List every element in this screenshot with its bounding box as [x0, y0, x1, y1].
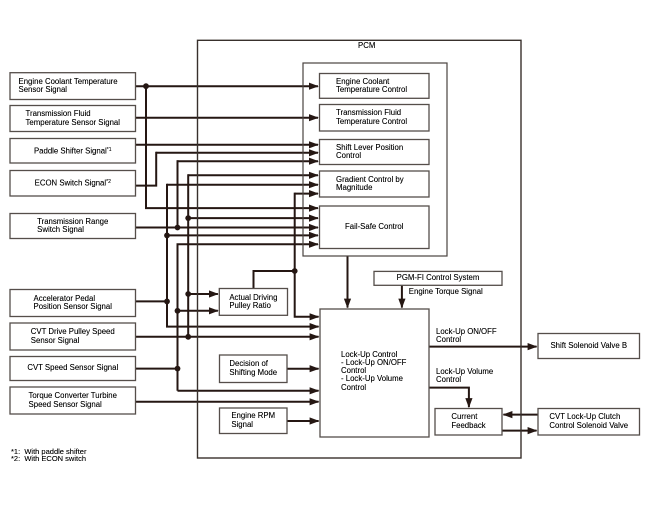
wire: cvt speed sensor output	[136, 368, 178, 370]
wire: cvt drive trunk to pulley ratio box	[188, 293, 218, 295]
node: cvt drive/pulley ratio junction	[185, 291, 191, 297]
box: trans fluid temp sensor signal	[10, 106, 136, 132]
wire: current feedback to cvt solenoid	[502, 430, 537, 432]
box: torque converter turbine speed sensor signal	[10, 387, 136, 414]
node: cvt drive/fail-safe junction	[185, 215, 191, 221]
box: accelerator pedal position sensor signal	[10, 290, 136, 317]
wire: lock-up volume to current feedback	[429, 388, 469, 408]
label: transmission fluid temperature control	[320, 105, 430, 132]
box: engine coolant temp sensor signal	[10, 73, 136, 100]
node: range junction	[175, 225, 181, 231]
box: shift lever position control	[320, 140, 430, 165]
label: lock-up on/off control	[436, 328, 497, 345]
inner control container box	[303, 63, 447, 256]
box: current feedback	[435, 409, 502, 436]
box: engine coolant temperature control	[320, 74, 430, 99]
label: cvt drive pulley speed sensor signal	[10, 323, 136, 350]
label: transmission range switch signal	[10, 214, 136, 239]
box: actual driving pulley ratio	[219, 289, 287, 316]
box: cvt drive pulley speed sensor signal	[10, 323, 136, 350]
label: engine coolant temp sensor signal	[10, 73, 136, 100]
wire: pulley ratio box top link	[254, 271, 295, 289]
wire: lock-up on/off to shift solenoid	[429, 346, 537, 348]
label: footnotes	[11, 448, 86, 463]
label: lock-up control block text	[341, 351, 406, 392]
wire: range switch to fail-safe	[136, 227, 319, 229]
wire: engine coolant temp sensor to control	[136, 85, 319, 87]
label: current feedback	[435, 409, 502, 436]
node: cvt drive output junction	[185, 334, 191, 340]
wire: cvt speed trunk to pulley ratio box	[178, 310, 218, 312]
label: fail-safe control	[320, 206, 430, 249]
label: shift lever position control	[320, 140, 430, 165]
node: cvt speed/pulley ratio junction	[175, 308, 181, 314]
wire: cvt drive pulley output to lock-up	[136, 336, 319, 338]
node: pulley ratio junction	[292, 268, 298, 274]
node: accel/fail-safe junction	[164, 233, 170, 239]
wire: range trunk to shift lever position control	[178, 160, 319, 162]
wire: econ switch output	[136, 152, 157, 186]
wire: range trunk up	[177, 160, 179, 227]
box: cvt speed sensor signal	[10, 357, 136, 381]
wire: accel trunk to fail-safe	[167, 234, 318, 236]
wire: engine rpm output	[287, 420, 319, 422]
label: engine torque signal	[409, 288, 483, 296]
label: PCM	[358, 42, 375, 50]
label: gradient control by magnitude	[320, 171, 430, 197]
wire: trans fluid temp sensor to control	[136, 117, 319, 119]
label: actual driving pulley ratio	[219, 289, 287, 316]
label: accelerator pedal position sensor signal	[10, 290, 136, 317]
wire: cvt drive trunk to fail-safe	[188, 217, 318, 219]
box: pgm-fi control system	[374, 271, 502, 285]
label: engine coolant temperature control	[320, 74, 430, 99]
label: trans fluid temp sensor signal	[10, 106, 136, 132]
wire: paddle shifter to shift lever position control	[136, 144, 319, 146]
label: shift solenoid valve B	[538, 334, 640, 359]
label: pgm-fi control system	[374, 271, 502, 285]
node: accel junction	[164, 299, 170, 305]
wire: econ trunk to shift lever position control	[156, 152, 318, 154]
label: decision of shifting mode	[220, 355, 288, 383]
wire: accel trunk vertical	[167, 184, 319, 327]
wire: cvt solenoid to current feedback	[503, 414, 538, 416]
wire: accelerator pedal output	[136, 300, 168, 302]
box: transmission fluid temperature control	[320, 105, 430, 132]
wire: torque converter output to lock-up	[136, 401, 319, 403]
label: engine rpm signal	[220, 408, 288, 434]
box: gradient control by magnitude	[320, 171, 430, 197]
wire: cvt drive trunk vertical	[187, 174, 189, 336]
label: paddle shifter signal	[10, 139, 136, 164]
wire: cvt speed trunk to lock-up	[178, 390, 319, 392]
wire: fail-safe block down to lock-up	[347, 256, 349, 308]
node: coolant junction	[143, 83, 149, 89]
box: shift solenoid valve B	[538, 334, 640, 359]
wire: pulley ratio feedback trunk	[295, 193, 319, 317]
wire: cvt speed trunk to fail-safe	[178, 244, 319, 390]
label: lock-up volume control	[436, 368, 493, 385]
box: lock-up control	[320, 309, 429, 437]
box: econ switch signal	[10, 171, 136, 197]
wire: accel trunk to gradient control	[167, 184, 318, 186]
label: econ switch signal	[10, 171, 136, 197]
wire: coolant trunk down to fail-safe	[146, 85, 318, 208]
PCM outer box	[198, 40, 522, 458]
wire: cvt drive trunk to gradient control	[188, 174, 318, 176]
box: cvt lock-up clutch control solenoid valve	[538, 409, 640, 436]
box: transmission range switch signal	[10, 214, 136, 239]
node: cvt speed output junction	[175, 366, 181, 372]
box: fail-safe control	[320, 206, 430, 249]
wire: pgm-fi down to lock-up	[401, 285, 403, 307]
box: decision of shifting mode	[220, 355, 288, 383]
wire: pulley ratio trunk to gradient control	[295, 193, 318, 195]
box: paddle shifter signal	[10, 139, 136, 164]
label: torque converter turbine speed sensor signal	[10, 387, 136, 414]
label: cvt lock-up clutch control solenoid valve	[538, 409, 640, 436]
wire: decision of shifting mode output	[287, 368, 319, 370]
box: engine rpm signal	[220, 408, 288, 434]
label: cvt speed sensor signal	[10, 357, 136, 381]
